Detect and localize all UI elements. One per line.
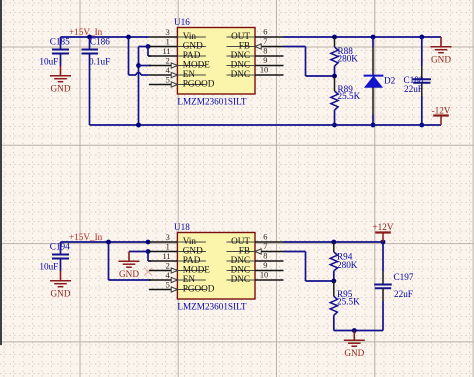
svg-text:25.5K: 25.5K (337, 297, 360, 307)
svg-text:MODE: MODE (183, 60, 210, 70)
svg-text:DNC: DNC (231, 69, 250, 79)
svg-text:7: 7 (263, 242, 267, 251)
svg-text:0.1uF: 0.1uF (89, 57, 110, 67)
sheet border left edge (0, 0, 2, 345)
svg-text:DNC: DNC (231, 265, 250, 275)
pin 2 MODE (149, 65, 178, 67)
svg-text:DNC: DNC (231, 255, 250, 265)
svg-text:D2: D2 (384, 76, 396, 86)
ground at bottom rail (353, 331, 355, 341)
ground at OUT rail (440, 37, 442, 47)
svg-text:3: 3 (166, 28, 170, 37)
junction on -12V rail (136, 123, 141, 128)
svg-text:GND: GND (183, 246, 203, 256)
svg-text:C186: C186 (90, 37, 110, 47)
diode D2 (372, 37, 374, 47)
svg-text:10uF: 10uF (39, 262, 58, 272)
svg-text:1: 1 (166, 37, 170, 46)
svg-text:EN: EN (183, 274, 196, 284)
svg-text:11: 11 (162, 47, 170, 56)
wire output bottom rail (334, 330, 383, 332)
pin 6 OUT (255, 36, 284, 38)
resistor R88 (334, 37, 336, 47)
wire C186 to -12V rail (89, 54, 91, 126)
pin 5 PGOOD (149, 84, 178, 86)
no-ERC marker on MODE pin (144, 268, 152, 276)
svg-text:9: 9 (263, 261, 267, 270)
svg-text:PAD: PAD (183, 255, 201, 265)
junction on Vin rail (146, 240, 151, 245)
pin 11 PAD (149, 260, 178, 262)
svg-text:280K: 280K (338, 54, 359, 64)
capacitor C185 (60, 37, 62, 50)
wire OUT rail (+12V net) (284, 241, 384, 243)
svg-text:8: 8 (263, 47, 267, 56)
svg-text:-12V: -12V (432, 106, 451, 116)
svg-text:22uF: 22uF (394, 289, 413, 299)
svg-text:2: 2 (166, 56, 170, 65)
svg-text:+12V: +12V (372, 222, 393, 232)
pin 1 GND (149, 251, 178, 253)
wire EN branch from Vin rail (106, 240, 111, 245)
svg-text:C194: C194 (50, 242, 70, 252)
svg-text:Vin: Vin (183, 31, 197, 41)
svg-text:C197: C197 (394, 272, 414, 282)
svg-text:3: 3 (166, 233, 170, 242)
resistor R89 (332, 74, 337, 79)
capacitor C186 (87, 35, 92, 40)
svg-text:10uF: 10uF (39, 57, 58, 67)
svg-text:LMZM23601SILT: LMZM23601SILT (177, 97, 246, 107)
pin 3 Vin (149, 241, 178, 243)
regulator module U16 (177, 28, 255, 95)
regulator module U18 (177, 233, 255, 300)
svg-text:EN: EN (183, 69, 196, 79)
svg-text:25.5K: 25.5K (338, 91, 361, 101)
svg-text:11: 11 (162, 252, 170, 261)
svg-text:+15V_In: +15V_In (69, 27, 103, 37)
svg-text:PAD: PAD (183, 50, 201, 60)
pin 9 DNC (255, 270, 284, 272)
pin 9 DNC (255, 65, 284, 67)
wire GND/PAD/MODE net (146, 44, 151, 49)
svg-text:LMZM23601SILT: LMZM23601SILT (177, 302, 246, 312)
pin 6 OUT (255, 241, 284, 243)
pin 8 DNC (255, 55, 284, 57)
svg-text:GND: GND (119, 269, 139, 279)
svg-text:2: 2 (166, 261, 170, 270)
svg-text:GND: GND (344, 348, 364, 358)
svg-text:22uF: 22uF (404, 84, 423, 94)
svg-text:5: 5 (166, 280, 170, 289)
wire -12V rail (90, 124, 442, 126)
wire GND/PAD net (146, 249, 151, 254)
svg-text:FB: FB (239, 41, 250, 51)
svg-text:PGOOD: PGOOD (183, 284, 215, 294)
wire FB to divider (284, 251, 306, 253)
pin 1 GND (149, 46, 178, 48)
pin 2 MODE (149, 270, 178, 272)
svg-text:OUT: OUT (231, 31, 250, 41)
wire hop over GND net (136, 73, 141, 75)
svg-text:DNC: DNC (231, 50, 250, 60)
ground below C185 (60, 66, 62, 76)
pin 11 PAD (149, 55, 178, 57)
pin 3 Vin (149, 36, 178, 38)
svg-text:GND: GND (51, 289, 71, 299)
resistor R95 (331, 279, 336, 284)
wire FB to divider (284, 46, 306, 48)
svg-text:GND: GND (51, 84, 71, 94)
svg-text:U16: U16 (174, 17, 190, 27)
wire Vin rail (61, 241, 149, 243)
svg-text:FB: FB (239, 246, 250, 256)
svg-text:+15V_In: +15V_In (69, 232, 103, 242)
svg-text:GND: GND (183, 41, 203, 51)
svg-text:6: 6 (263, 28, 267, 37)
svg-text:1: 1 (166, 242, 170, 251)
svg-text:5: 5 (166, 75, 170, 84)
svg-text:6: 6 (263, 233, 267, 242)
pin 10 DNC (255, 279, 284, 281)
pin 7 FB (255, 251, 284, 253)
capacitor C194 (60, 242, 62, 255)
ground symbol for GND/PAD pins (128, 252, 130, 262)
power symbol +12V (382, 233, 384, 243)
svg-text:GND: GND (431, 55, 451, 65)
pin 5 PGOOD (149, 289, 178, 291)
svg-text:DNC: DNC (231, 274, 250, 284)
capacitor C197 (382, 242, 384, 271)
svg-text:OUT: OUT (231, 236, 250, 246)
power symbol -12V (440, 116, 442, 126)
svg-text:10: 10 (260, 271, 268, 280)
svg-text:7: 7 (263, 37, 267, 46)
svg-text:DNC: DNC (231, 60, 250, 70)
svg-text:MODE: MODE (183, 265, 210, 275)
svg-text:C185: C185 (50, 37, 70, 47)
wire EN branch from Vin rail (126, 35, 131, 40)
pin 4 EN (149, 74, 178, 76)
svg-text:U18: U18 (174, 222, 190, 232)
wire Vin rail (61, 36, 149, 38)
svg-text:PGOOD: PGOOD (183, 79, 215, 89)
svg-text:280K: 280K (337, 260, 358, 270)
pin 7 FB (255, 46, 284, 48)
svg-text:8: 8 (263, 252, 267, 261)
svg-text:10: 10 (260, 66, 268, 75)
svg-text:9: 9 (263, 56, 267, 65)
wire OUT rail (GND net) (284, 36, 442, 38)
pin 4 EN (149, 279, 178, 281)
ground below C194 (60, 271, 62, 281)
svg-text:Vin: Vin (183, 236, 197, 246)
pin 10 DNC (255, 74, 284, 76)
resistor R94 (333, 242, 335, 252)
pin 8 DNC (255, 260, 284, 262)
